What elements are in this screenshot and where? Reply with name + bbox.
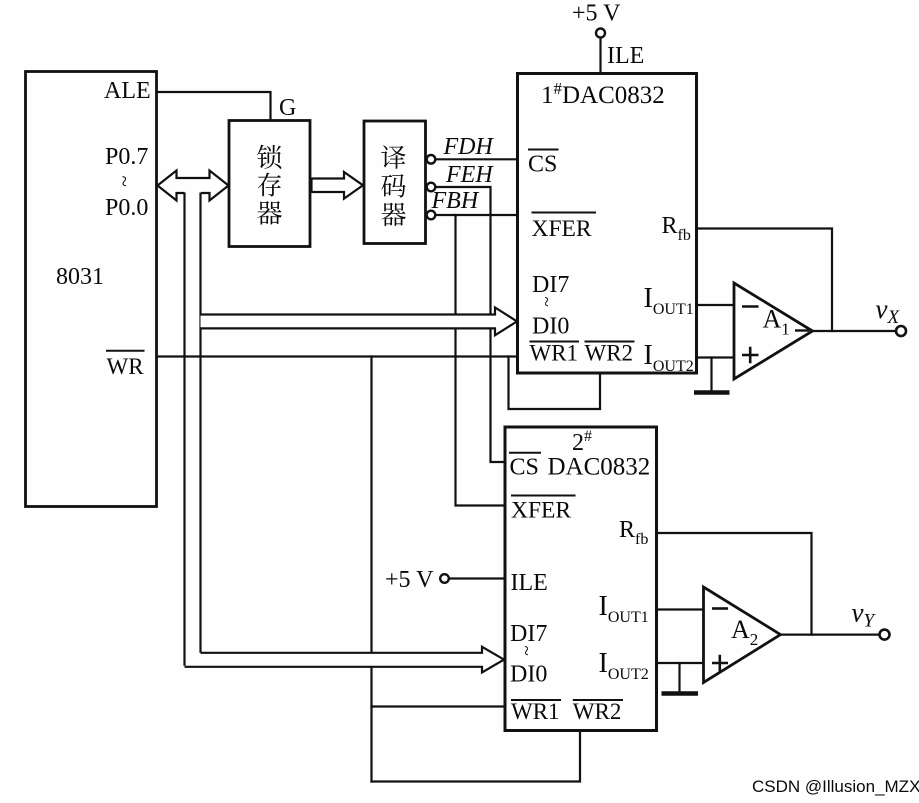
ground symbol below A1 input [694,390,730,395]
overline of WR2 in DAC2 [573,699,623,701]
svg-text:DI7: DI7 [510,621,547,647]
svg-text:G: G [279,95,296,121]
wire ILE pin of DAC1 to +5V [599,38,601,73]
svg-text:XFER: XFER [511,498,571,524]
decoder text 器 [381,203,406,226]
svg-text:WR1: WR1 [511,699,560,724]
svg-text:WR2: WR2 [585,341,634,366]
op-amp A1 minus sign [742,305,759,308]
svg-text:WR1: WR1 [530,341,579,366]
op-amp A1 triangle [734,283,813,379]
overline of WR in 8031 [106,350,145,352]
wire Rfb feedback of A2 [657,533,812,635]
overline of WR2 in DAC1 [585,341,635,343]
op-amp A1 plus sign [742,347,759,363]
svg-text:+5 V: +5 V [572,1,621,27]
wire IOUT2 to A1 non-inverting input [697,356,733,358]
decoder text 译 [381,145,405,169]
op-amp A2 plus sign [712,655,728,671]
overline of CS in DAC1 [528,149,559,151]
node vX output terminal [896,326,906,336]
overline of XFER in DAC1 [532,212,597,214]
wire A1 output to vX terminal [813,330,897,332]
overline of CS in DAC2 [509,452,541,454]
wire WR from 8031 to DAC1 WR1 [157,355,517,357]
ground symbol below A2 input [662,691,699,696]
wire FBH: decoder output 3 to DAC1 XFER [435,214,516,216]
svg-text:P0.0: P0.0 [105,195,148,221]
overline of XFER in DAC2 [511,495,576,497]
wire FBH tap down to DAC2 XFER [456,215,505,506]
bus arrow data DI7-DI0 into DAC1 [201,308,518,336]
node +5V terminal circle above DAC1 [596,29,605,38]
wire +5V to DAC2 ILE [449,577,504,579]
op-amp A2 minus sign [712,607,728,610]
svg-text:~: ~ [516,646,537,656]
box decoder 译码器 [364,121,426,244]
bus stem right line [199,193,201,653]
svg-text:CS: CS [510,454,539,480]
wire ground tap A2 [678,663,680,692]
svg-text:WR2: WR2 [573,699,622,724]
svg-text:WR: WR [107,354,145,379]
svg-text:8031: 8031 [56,264,104,290]
wire WR branch to DAC2 WR1 [372,705,505,707]
svg-text:+5 V: +5 V [385,567,434,593]
wire DAC1 WR2 loop below box [509,357,601,410]
wire ALE from 8031 to latch G input [157,92,271,119]
svg-text:~: ~ [113,176,137,187]
wire Rfb feedback of A1 [697,229,832,332]
svg-text:ALE: ALE [104,78,151,104]
latch text 器 [257,201,282,224]
svg-text:CSDN @Illusion_MZX: CSDN @Illusion_MZX [752,777,919,796]
box U1 1# DAC0832 [518,74,697,374]
latch text 存 [258,173,281,197]
op-amp A1 output stub inside tip [795,329,809,331]
bus arrow bidirectional 8031 to latch [158,171,229,201]
latch text 锁 [257,145,281,169]
wire WR tap down left of DAC2 [370,357,372,782]
wire ground tap A1 [710,358,712,391]
bus arrow data DI7-DI0 into DAC2 [185,647,505,673]
wire IOUT2 to A2 non-inverting input [657,662,704,664]
box latch 锁存器 [229,121,310,247]
svg-text:FBH: FBH [431,188,480,214]
overline of WR1 in DAC1 [530,341,580,343]
node vY output terminal [880,630,890,640]
svg-text:DI0: DI0 [532,314,569,340]
op-amp A2 triangle [704,587,781,683]
svg-text:P0.7: P0.7 [105,144,148,170]
bus stem left line from bidirectional arrow down [183,193,185,666]
box U2 2# DAC0832 [505,427,657,731]
svg-text:ILE: ILE [607,43,644,69]
wire FDH: decoder output 1 to DAC1 CS [435,158,516,160]
wire IOUT1 to A1 inverting input [697,304,734,306]
svg-text:CS: CS [528,152,557,178]
svg-text:DAC0832: DAC0832 [548,453,651,480]
box 8031 microcontroller [26,72,157,507]
svg-text:XFER: XFER [532,216,592,242]
svg-text:ILE: ILE [511,570,548,596]
wire A2 output to vY terminal [781,633,880,635]
wire bottom run to DAC2 WR2 [372,731,581,782]
overline of WR1 in DAC2 [511,699,561,701]
svg-text:~: ~ [536,297,557,307]
wire IOUT1 to A2 inverting input [657,608,704,610]
decoder output node FBH [427,211,436,220]
decoder output node FDH [427,155,436,164]
wire FEH: decoder output 2 down to DAC2 CS [435,187,504,462]
bus arrow latch to decoder [312,172,364,199]
svg-text:FEH: FEH [445,162,494,188]
decoder output node FEH [427,183,436,192]
svg-text:DI0: DI0 [510,662,547,688]
decoder text 码 [381,174,405,197]
svg-text:DI7: DI7 [532,272,569,298]
node +5V terminal circle at DAC2 ILE [440,574,449,583]
svg-text:FDH: FDH [443,134,495,160]
